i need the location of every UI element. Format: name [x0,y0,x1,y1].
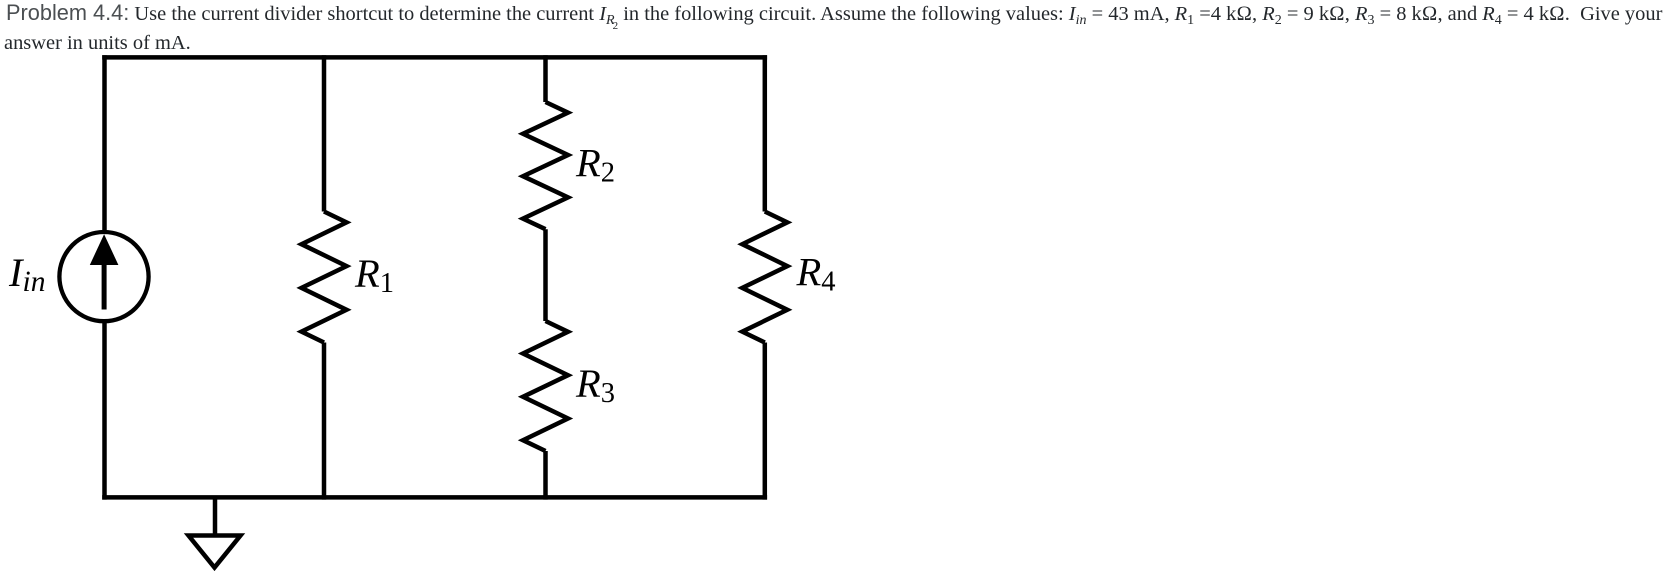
wire top rail [102,55,767,60]
wire mid branch lower [543,451,548,500]
wire R1 branch upper [322,55,327,211]
wire mid branch upper [543,55,548,102]
wire right branch upper [763,55,768,211]
wire mid branch middle [543,229,548,321]
current source arrow [90,234,119,309]
svg-text:Iin: Iin [8,250,45,298]
svg-text:R2: R2 [575,141,615,189]
ground symbol [189,536,241,568]
resistor R4 [742,212,787,343]
wire R1 branch lower [322,343,327,500]
current source Iin circle [59,232,148,321]
problem statement line 1 [6,0,1662,27]
wire left branch upper [102,55,107,231]
wire right branch lower [763,343,768,500]
resistor R3 [523,321,568,451]
svg-text:R3: R3 [575,361,615,409]
wire left branch lower [102,323,107,500]
svg-text:R4: R4 [796,250,836,298]
resistor R2 [523,102,568,229]
ground stem wire [213,497,218,535]
wire bottom rail [102,495,767,500]
resistor R1 [302,212,347,343]
problem statement line 2 [4,30,191,56]
svg-text:R1: R1 [354,251,394,299]
